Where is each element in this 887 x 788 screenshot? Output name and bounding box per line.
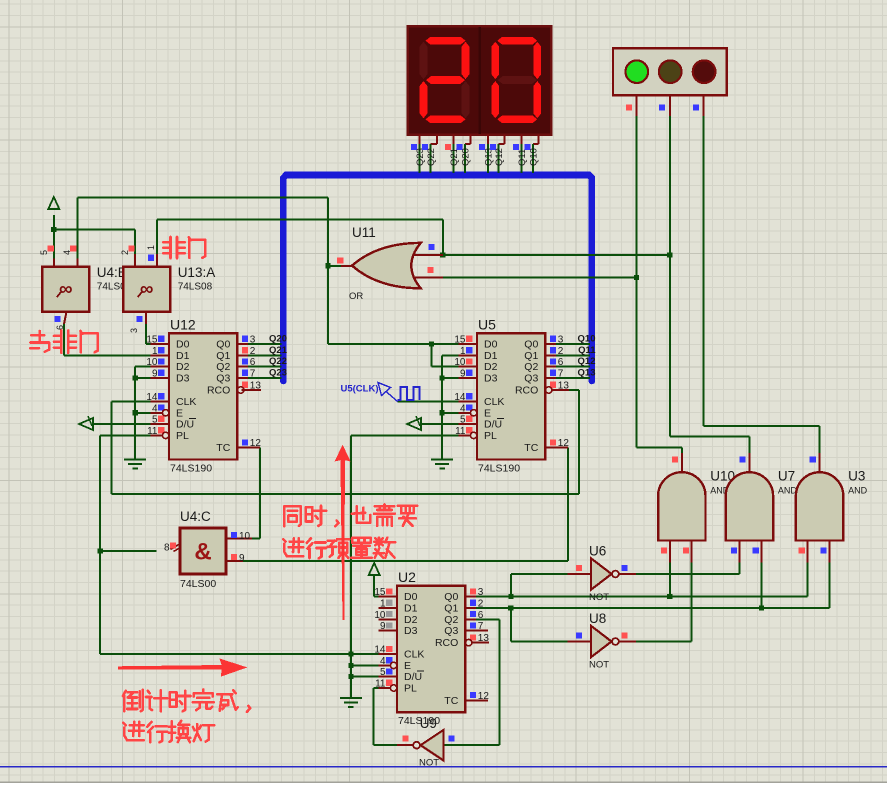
annotation text line: daojishi wancheng, (123, 691, 126, 696)
wire U12 CLK from U5 RCO (112, 401, 151, 403)
pin squares/numbers U4:B (48, 245, 54, 251)
AND gate U13:A (74LS08, drawn as box) (123, 267, 170, 312)
wire U2 Q1 net to U8 / U7 / U3 (476, 607, 829, 609)
left digit 2 (426, 37, 466, 45)
AND gate U3 (819, 453, 821, 472)
wire U11 input2 to traffic green net (443, 277, 636, 279)
counter U5 (74LS190) (459, 343, 477, 345)
svg-text:D3: D3 (404, 625, 418, 637)
display pins to bus with labels (419, 135, 421, 144)
svg-text:D3: D3 (176, 373, 190, 385)
wire U12 D2/D3/E ground net (135, 366, 151, 368)
svg-text:7: 7 (558, 369, 564, 380)
svg-text:10: 10 (454, 357, 466, 368)
svg-text:Q11: Q11 (517, 149, 528, 166)
sheet boundary blue line (0, 766, 887, 768)
wire U8 output to U10 input2 (636, 641, 692, 643)
red lamp (off) (693, 60, 716, 83)
wire traffic red lamp to U3 output (703, 116, 705, 426)
svg-text:12: 12 (478, 691, 490, 702)
svg-text:15: 15 (374, 587, 386, 598)
svg-text:Q2: Q2 (216, 361, 230, 373)
svg-text:D3: D3 (484, 373, 498, 385)
bottom window edge (0, 781, 887, 783)
svg-text:Q2: Q2 (524, 361, 538, 373)
svg-text:Q0: Q0 (216, 339, 230, 351)
svg-text:9: 9 (380, 621, 386, 632)
ground GND2 (U5) (431, 458, 453, 460)
wire U7 input2 to Q1 net (761, 563, 763, 609)
counter U12 (74LS190) (151, 343, 169, 345)
svg-text:2: 2 (120, 250, 130, 255)
pin squares/numbers U13:A (128, 245, 134, 251)
svg-text:D0: D0 (176, 339, 190, 351)
svg-text:3: 3 (478, 587, 484, 598)
two-digit 7-segment display showing 20 (408, 26, 552, 135)
svg-text:6: 6 (55, 325, 65, 330)
junction dots (51, 227, 56, 232)
svg-text:Q0: Q0 (444, 591, 458, 603)
svg-text:Q0: Q0 (524, 339, 538, 351)
svg-text:14: 14 (374, 645, 386, 656)
svg-text:1: 1 (380, 599, 386, 610)
wire U12 TC to U4:C pin10 (259, 448, 261, 539)
NAND gate U4:C (74LS00, box with &) (226, 538, 252, 540)
svg-text:15: 15 (454, 335, 466, 346)
svg-text:74LS00: 74LS00 (180, 578, 216, 590)
svg-text:5: 5 (152, 415, 158, 426)
svg-text:10: 10 (374, 610, 386, 621)
wire clock generator to U5 CLK (398, 401, 459, 403)
svg-text:5: 5 (460, 415, 466, 426)
svg-text:D2: D2 (176, 361, 190, 373)
svg-text:TC: TC (216, 442, 230, 454)
svg-text:74LS190: 74LS190 (170, 463, 212, 475)
wires U5 Q0-Q3 to bus (556, 343, 590, 345)
svg-text:4: 4 (152, 403, 158, 414)
svg-text:Q11: Q11 (578, 345, 596, 356)
svg-text:E: E (404, 660, 411, 672)
svg-text:Q3: Q3 (524, 373, 538, 385)
svg-text:∞: ∞ (59, 279, 73, 300)
svg-text:U13:A: U13:A (178, 265, 216, 280)
wire U13:A pin1 to U11 input1 and traffic yellow net (156, 220, 158, 255)
wire U2 E and D/U to ground net (351, 664, 380, 666)
svg-text:U4:C: U4:C (180, 509, 211, 524)
svg-text:RCO: RCO (435, 637, 458, 649)
svg-text:D/U: D/U (404, 671, 422, 683)
U12 TC to corner stub (237, 447, 259, 449)
pin squares U11 (337, 258, 343, 264)
svg-text:Q22: Q22 (269, 356, 287, 367)
svg-text:CLK: CLK (176, 396, 196, 408)
svg-text:U8: U8 (589, 611, 606, 626)
svg-text:Q13: Q13 (578, 368, 596, 379)
svg-text:U7: U7 (778, 469, 795, 484)
svg-text:6: 6 (250, 357, 256, 368)
svg-text:Q12: Q12 (578, 356, 596, 367)
svg-text:RCO: RCO (207, 385, 230, 397)
svg-text:D1: D1 (176, 350, 190, 362)
wire U12 D/U with goto arrow (79, 418, 93, 430)
svg-text:9: 9 (239, 553, 245, 564)
wire U10 input1 to Q0 net (669, 563, 671, 597)
NOT gate U6 (568, 573, 591, 575)
svg-text:9: 9 (460, 369, 466, 380)
svg-text:10: 10 (146, 357, 158, 368)
svg-text:3: 3 (558, 335, 564, 346)
svg-text:1: 1 (152, 346, 158, 357)
counter U2 (74LS190) (379, 596, 397, 598)
svg-text:2: 2 (250, 346, 256, 357)
red annotation arrow up (preset) (335, 445, 351, 620)
wires U12 Q0-Q3 to bus (248, 343, 282, 345)
annotation text line: tongshi, ye xuyao (283, 506, 286, 526)
svg-text:U12: U12 (170, 316, 196, 332)
svg-text:5: 5 (39, 250, 49, 255)
svg-text:6: 6 (558, 357, 564, 368)
svg-text:Q13: Q13 (483, 148, 494, 166)
svg-text:Q3: Q3 (216, 373, 230, 385)
svg-text:9: 9 (152, 369, 158, 380)
svg-text:U6: U6 (589, 544, 606, 559)
svg-text:11: 11 (147, 426, 158, 437)
svg-text:8: 8 (164, 543, 170, 554)
svg-text:74LS190: 74LS190 (478, 463, 520, 475)
pin stubs U4:B (53, 259, 55, 267)
OR gate U11 (mirrored) (409, 254, 443, 256)
svg-text:&: & (194, 539, 211, 566)
svg-text:Q2: Q2 (444, 614, 458, 626)
wire U5 D1/D3/E ground net (442, 354, 459, 356)
pin stubs U13:A (134, 254, 136, 267)
svg-text:Q3: Q3 (444, 625, 458, 637)
svg-text:NOT: NOT (589, 660, 609, 671)
svg-text:5: 5 (380, 667, 386, 678)
svg-text:7: 7 (250, 369, 256, 380)
svg-text:D2: D2 (484, 361, 498, 373)
svg-text:E: E (484, 407, 491, 419)
wire U13:A pin3 to U12 D0 (145, 324, 147, 344)
NAND gate U4:B (74LS00, drawn as box) (42, 267, 89, 312)
svg-text:Q21: Q21 (269, 345, 288, 356)
annotation text fei-men (NOT gate) (169, 237, 172, 258)
svg-text:Q10: Q10 (578, 334, 596, 345)
ground GND1 (U12) (124, 458, 146, 460)
svg-text:1: 1 (460, 346, 466, 357)
AND gate U10 (681, 453, 683, 472)
svg-text:2: 2 (478, 599, 484, 610)
wire U4:B pin4 to U11 output to U5 D0/D2 (77, 198, 79, 259)
svg-text:E: E (176, 407, 183, 419)
svg-text:U9: U9 (420, 716, 437, 731)
svg-text:4: 4 (62, 250, 72, 255)
traffic light pin squares (626, 104, 632, 110)
svg-text:4: 4 (460, 403, 466, 414)
svg-text:Q1: Q1 (216, 350, 230, 362)
svg-text:11: 11 (375, 679, 386, 690)
svg-text:TC: TC (524, 442, 538, 454)
traffic light module (613, 48, 727, 95)
svg-text:AND: AND (848, 486, 868, 496)
power arrow VCC1 (top-left) (48, 197, 59, 209)
svg-text:Q20: Q20 (461, 148, 472, 166)
svg-text:U3: U3 (848, 469, 865, 484)
ground GND3 (U2) (340, 697, 362, 699)
wire traffic green lamp to U10 output (635, 116, 637, 448)
svg-text:1: 1 (146, 245, 156, 250)
wire U12 PL net to U4:C output and U2 CLK (100, 434, 151, 436)
svg-text:4: 4 (380, 656, 386, 667)
svg-text:NOT: NOT (589, 592, 609, 603)
svg-text:Q1: Q1 (444, 603, 458, 615)
svg-text:D/U: D/U (176, 419, 194, 431)
annotation text line: jinxing yuzhishu (290, 540, 303, 543)
svg-text:Q10: Q10 (529, 148, 540, 166)
yellow lamp (off) (659, 60, 682, 83)
svg-text:U5: U5 (478, 316, 496, 332)
svg-text:AND: AND (778, 486, 798, 496)
svg-text:15: 15 (146, 335, 158, 346)
svg-text:D/U: D/U (484, 419, 502, 431)
svg-text:11: 11 (455, 426, 466, 437)
wire U2 PL from U9 output (373, 687, 380, 689)
svg-text:∞: ∞ (140, 279, 154, 300)
svg-text:3: 3 (250, 335, 256, 346)
svg-text:13: 13 (558, 381, 570, 392)
svg-text:Q23: Q23 (415, 148, 426, 166)
NOT gate U8 (568, 641, 591, 643)
svg-text:RCO: RCO (515, 385, 538, 397)
svg-text:7: 7 (478, 621, 484, 632)
svg-text:10: 10 (239, 531, 251, 542)
svg-text:D0: D0 (484, 339, 498, 351)
svg-text:Q23: Q23 (269, 368, 287, 379)
svg-text:PL: PL (176, 430, 189, 442)
U12 RCO unconnected stub (242, 389, 261, 391)
svg-text:PL: PL (484, 430, 497, 442)
svg-text:D0: D0 (404, 591, 418, 603)
svg-text:Q21: Q21 (449, 148, 460, 166)
svg-text:2: 2 (558, 346, 564, 357)
wire power arrow to U2 D0 (373, 575, 375, 597)
svg-text:TC: TC (444, 695, 458, 707)
AND gate U7 (748, 453, 750, 472)
svg-text:CLK: CLK (404, 649, 424, 661)
svg-text:U11: U11 (352, 225, 376, 240)
svg-text:Q20: Q20 (269, 334, 287, 345)
wire U2 Q2 to U9 input (476, 618, 499, 620)
svg-text:CLK: CLK (484, 396, 504, 408)
svg-text:Q22: Q22 (426, 148, 437, 166)
U2 Q3 stub (476, 630, 488, 632)
svg-text:U5(CLK): U5(CLK) (341, 384, 379, 395)
annotation text line: jinxing huandeng (130, 724, 144, 727)
wire power to U4:B pin5 / U13:A pin2 (53, 215, 55, 259)
pin squares/numbers U4:C (170, 542, 176, 548)
svg-text:12: 12 (558, 438, 570, 449)
NOT gate U9 (mirrored, pointing left) (397, 744, 413, 746)
annotation text yu-fei-men (NAND gate) (31, 334, 44, 337)
svg-text:Q12: Q12 (494, 148, 505, 166)
wire U5 D/U with goto arrow (407, 418, 421, 430)
svg-text:13: 13 (478, 633, 490, 644)
svg-text:6: 6 (478, 610, 484, 621)
svg-text:74LS08: 74LS08 (178, 282, 213, 293)
right digit 0 (497, 37, 537, 45)
wire U5 TC to U4:C pin9 (556, 447, 568, 449)
power arrow VCC2 (above U2) (369, 563, 380, 575)
svg-text:Q1: Q1 (524, 350, 538, 362)
wire U5 PL down to U2 region ground net (351, 434, 459, 436)
svg-text:D1: D1 (484, 350, 498, 362)
svg-text:PL: PL (404, 683, 417, 695)
wire U2 Q0 net to U6 / U10 / U3 (476, 596, 808, 598)
svg-text:14: 14 (146, 392, 158, 403)
bus from counters to 7-segment display (283, 175, 592, 381)
svg-text:14: 14 (454, 392, 466, 403)
wire U6 output to U7 input1 (636, 573, 740, 575)
traffic light pin stubs (635, 95, 637, 116)
svg-text:D2: D2 (404, 614, 418, 626)
svg-text:3: 3 (129, 328, 139, 333)
svg-text:D1: D1 (404, 603, 418, 615)
green lamp (lit) (626, 60, 649, 83)
svg-text:U2: U2 (398, 569, 416, 585)
wire traffic yellow lamp to U7 output (669, 116, 671, 437)
red annotation arrow right (lamp change) (118, 659, 247, 677)
svg-text:OR: OR (349, 291, 363, 302)
wire U4:B pin6 to U12 D1 (63, 324, 65, 355)
